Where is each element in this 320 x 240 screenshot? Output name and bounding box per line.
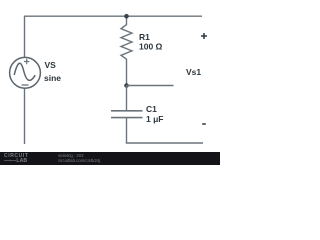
resistor R1 zigzag — [121, 16, 132, 85]
svg-text:sine: sine — [44, 73, 61, 83]
capacitor C1 bottom plate — [111, 117, 143, 119]
svg-text:100 Ω: 100 Ω — [139, 42, 163, 52]
wire: capacitor bottom plate down to bottom corner — [126, 118, 128, 143]
watermark CircuitLab logo — [4, 154, 54, 165]
watermark bar — [0, 152, 220, 165]
svg-text:C1: C1 — [146, 104, 157, 114]
wire: bottom horizontal to right terminal — [126, 142, 203, 144]
wire: junction down to capacitor top plate — [126, 86, 128, 111]
svg-text:1 μF: 1 μF — [146, 114, 163, 124]
wire: middle stub to Vs1 — [127, 85, 174, 87]
wire: VS top up to corner — [24, 16, 26, 57]
watermark text line 2 — [58, 159, 100, 164]
voltage source minus mark — [22, 84, 29, 86]
watermark text line 1 — [58, 154, 84, 159]
svg-text:VS: VS — [45, 60, 57, 70]
node dot: top junction — [124, 14, 129, 19]
wire: top horizontal from corner to right terminal — [24, 15, 202, 17]
voltage source VS circle — [10, 57, 41, 88]
voltage source sine wave — [14, 63, 35, 80]
output minus terminal mark — [202, 123, 206, 125]
svg-text:R1: R1 — [139, 32, 150, 42]
voltage source plus mark — [24, 59, 29, 64]
wire: VS bottom down, open end — [24, 89, 26, 145]
capacitor C1 top plate — [111, 110, 143, 112]
node dot: R1/C1 junction — [124, 83, 129, 88]
svg-text:Vs1: Vs1 — [186, 67, 201, 77]
output plus terminal mark — [201, 33, 207, 39]
